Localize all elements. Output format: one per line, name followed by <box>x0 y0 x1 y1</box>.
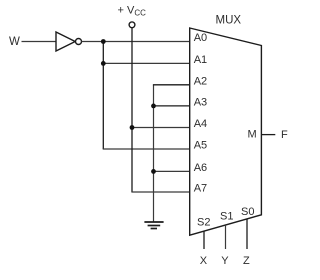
junction on A4 wire <box>130 125 135 130</box>
wire S0 to Z <box>246 219 248 249</box>
svg-text:X: X <box>200 255 208 267</box>
svg-text:W: W <box>9 36 20 48</box>
ground <box>144 222 163 229</box>
svg-text:A1: A1 <box>194 54 207 66</box>
wire to A1 <box>103 62 189 64</box>
junction on A6 wire <box>151 169 156 174</box>
wire to A3 <box>154 105 190 107</box>
junction on A0 wire <box>101 39 106 44</box>
svg-text:Z: Z <box>243 255 250 267</box>
svg-text:A0: A0 <box>194 32 207 44</box>
svg-text:+ VCC: + VCC <box>118 5 147 18</box>
junction on A1 wire <box>101 61 106 66</box>
svg-text:MUX: MUX <box>216 15 242 27</box>
wire to A7 <box>131 191 189 193</box>
wire W to inverter input <box>22 41 57 43</box>
svg-text:S1: S1 <box>220 211 233 223</box>
wire vertical from A0 node down to A5 row <box>102 42 104 150</box>
wire S1 to Y <box>225 225 227 249</box>
wire S2 to X <box>203 231 205 249</box>
wire VCC vertical down to A7 row <box>131 28 133 192</box>
junction on A3 wire <box>151 104 156 109</box>
wire to A5 <box>103 148 190 150</box>
svg-text:A6: A6 <box>194 162 207 174</box>
wire M output to F <box>261 134 275 136</box>
svg-text:F: F <box>281 129 288 141</box>
svg-text:A7: A7 <box>194 183 207 195</box>
svg-text:A4: A4 <box>194 118 207 130</box>
svg-text:S2: S2 <box>197 216 210 228</box>
svg-text:Y: Y <box>221 255 229 267</box>
svg-text:S0: S0 <box>241 206 254 218</box>
svg-text:A5: A5 <box>194 140 207 152</box>
svg-text:A2: A2 <box>194 75 207 87</box>
inverter (NOT gate) triangle <box>56 32 75 51</box>
op-amp U1 MUX body <box>190 28 262 235</box>
inverter output bubble <box>76 39 82 45</box>
wire inverter output to A0 <box>82 41 190 43</box>
svg-text:M: M <box>248 129 257 141</box>
wire to A2 <box>153 84 190 86</box>
wire ground vertical from A2 row to ground <box>153 85 155 222</box>
svg-text:A3: A3 <box>194 96 207 108</box>
VCC terminal circle <box>129 22 135 28</box>
wire to A4 <box>132 127 190 129</box>
wire to A6 <box>154 170 190 172</box>
